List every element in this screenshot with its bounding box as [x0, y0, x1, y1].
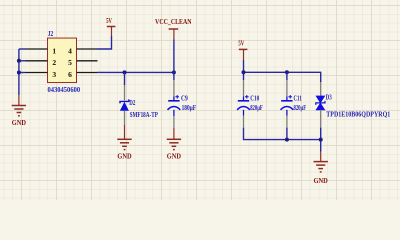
junction at pin3: [17, 71, 21, 75]
pin C10 top: [243, 80, 245, 96]
ground GND (below J2): [12, 95, 26, 116]
capacitor C9: [168, 95, 181, 110]
wire left vertical bus: [18, 49, 20, 95]
svg-text:GND: GND: [12, 119, 26, 127]
pin D2 top: [124, 85, 126, 100]
ground GND (below C9): [167, 128, 181, 150]
power 5V (right): [239, 49, 248, 60]
svg-text:5V: 5V: [106, 17, 112, 25]
svg-text:4: 4: [68, 46, 72, 55]
capacitor C11: [281, 95, 294, 110]
svg-text:GND: GND: [167, 153, 181, 161]
diode D2 (zener SMF18A-TP): [120, 99, 129, 110]
svg-text:J2: J2: [48, 30, 54, 38]
svg-text:1: 1: [52, 46, 56, 55]
svg-text:SMF18A-TP: SMF18A-TP: [130, 111, 159, 119]
pin C10 bottom: [243, 110, 245, 116]
wire stub to D2: [124, 72, 126, 85]
wire pin4 to 5V: [97, 36, 112, 49]
pin 6: [77, 72, 97, 74]
pin D3 top: [320, 82, 322, 96]
wire stub pin2: [19, 60, 26, 62]
junction 5V/C10: [242, 70, 246, 74]
pin C9 top: [173, 80, 175, 96]
pin 3: [26, 72, 48, 74]
svg-text:3: 3: [52, 70, 56, 79]
pin C11 top: [286, 72, 288, 80]
wire VCC_CLEAN to C9: [173, 40, 175, 81]
power 5V (left): [107, 27, 116, 37]
capacitor C10: [237, 95, 250, 110]
pin C9 bottom: [173, 110, 175, 116]
svg-text:C11: C11: [294, 94, 302, 102]
svg-text:D2: D2: [129, 99, 135, 107]
wire bottom rail: [244, 128, 321, 140]
diode D3 (TVS bidirectional): [316, 96, 325, 110]
wire 5V down: [243, 60, 245, 80]
junction at pin2: [17, 59, 21, 63]
svg-text:820µF: 820µF: [250, 104, 263, 112]
ground GND (below D2): [117, 125, 131, 150]
pin D2 bottom: [124, 111, 126, 125]
pin 2: [26, 60, 48, 62]
svg-text:C10: C10: [250, 94, 259, 102]
svg-text:5: 5: [68, 58, 72, 67]
connector J2 body: [48, 38, 77, 83]
svg-text:5V: 5V: [238, 39, 244, 47]
pin 1: [26, 48, 48, 50]
pin C11 bottom: [286, 110, 288, 116]
pin 5: [77, 60, 98, 62]
svg-text:180µF: 180µF: [182, 104, 197, 112]
pin 4: [77, 48, 97, 50]
svg-text:GND: GND: [314, 177, 328, 185]
junction at C9: [172, 70, 176, 74]
wire right top rail: [244, 72, 321, 82]
svg-text:GND: GND: [117, 153, 131, 161]
wire pin6 net VCC_CLEAN: [97, 71, 174, 73]
svg-text:6: 6: [68, 70, 72, 79]
junction C11 top: [285, 70, 289, 74]
junction D3 bottom: [319, 138, 323, 142]
junction C11 bottom: [285, 138, 289, 142]
svg-text:TPD1E10B06QDPYRQ1: TPD1E10B06QDPYRQ1: [326, 111, 390, 119]
svg-text:2: 2: [52, 58, 56, 67]
svg-text:C9: C9: [181, 94, 188, 102]
svg-text:0430450600: 0430450600: [48, 86, 81, 94]
wire stub pin1: [19, 48, 26, 50]
junction at D2: [123, 70, 127, 74]
svg-text:D3: D3: [326, 94, 332, 102]
pin D3 bottom: [320, 110, 322, 128]
power VCC_CLEAN: [169, 29, 179, 40]
ground GND (bottom right): [314, 152, 328, 172]
svg-text:VCC_CLEAN: VCC_CLEAN: [155, 18, 192, 26]
svg-text:820µF: 820µF: [294, 104, 307, 112]
wire stub pin3: [19, 72, 26, 74]
